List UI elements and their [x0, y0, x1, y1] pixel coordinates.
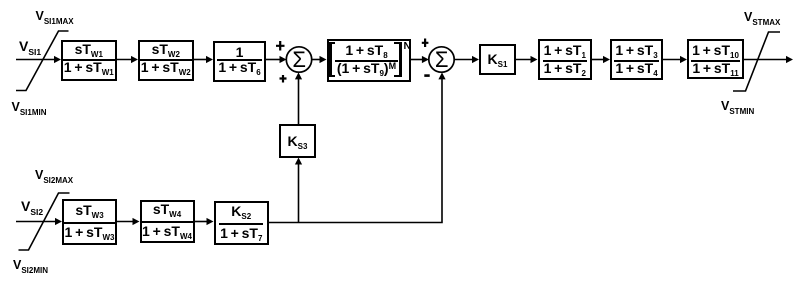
svg-text:Σ: Σ [435, 47, 449, 72]
svg-text:Σ: Σ [292, 47, 306, 72]
